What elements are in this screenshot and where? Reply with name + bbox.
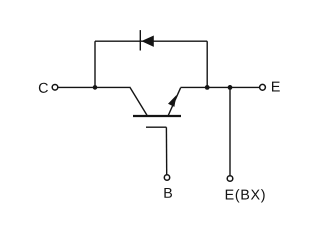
wire base vertical — [165, 127, 167, 175]
diode D1 cathode bar — [139, 30, 141, 50]
terminal E label — [272, 82, 280, 92]
wire emitter rail to E terminal — [181, 86, 260, 88]
node junction at C branch — [93, 85, 98, 90]
terminal E circle — [260, 84, 266, 90]
terminal B label — [164, 188, 172, 198]
transistor Q1 emitter arrow — [169, 96, 176, 106]
transistor Q1 gate bar — [146, 126, 166, 128]
wire C to collector node — [58, 86, 131, 88]
transistor Q1 body bar — [133, 115, 181, 117]
transistor Q1 collector lead — [130, 88, 147, 116]
wire right vertical from diode to E rail — [206, 41, 208, 87]
terminal B circle — [164, 175, 169, 180]
node junction E(BX) branch — [228, 85, 233, 90]
terminal C circle — [52, 85, 58, 91]
terminal E(BX) circle — [227, 176, 233, 182]
wire up from C node — [94, 41, 96, 87]
wire E(BX) vertical — [229, 87, 231, 175]
diode D1 triangle — [142, 36, 153, 46]
wire top horizontal — [95, 40, 207, 42]
transistor Q1 emitter lead — [168, 88, 181, 116]
node junction diode-E — [205, 85, 210, 90]
terminal E(BX) label — [226, 189, 265, 202]
terminal C label — [39, 83, 48, 93]
